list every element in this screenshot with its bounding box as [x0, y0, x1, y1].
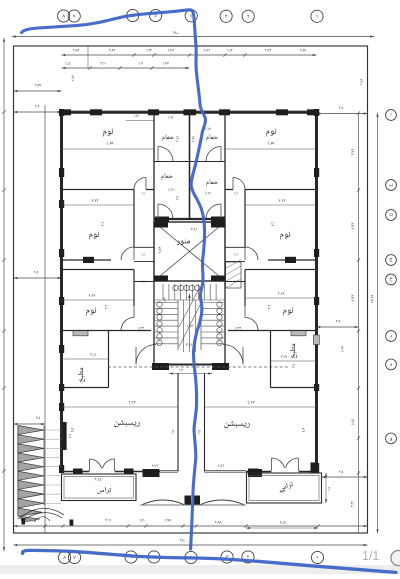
light well corner col 3 — [154, 276, 168, 282]
light well diagonals — [154, 222, 225, 281]
exterior top wall — [60, 111, 318, 114]
column left wall 5 — [59, 297, 64, 305]
porch dim 2.76 left — [160, 470, 178, 472]
kitchenR label — [290, 344, 297, 358]
bed3L dim 3.23 — [62, 299, 135, 301]
column left wall 6 — [59, 345, 64, 353]
window top wall 2 — [102, 110, 148, 112]
bath1L label — [162, 134, 174, 141]
top window dims — [134, 115, 139, 118]
grid bubble 3 top — [220, 10, 232, 22]
receptionL bottom wall — [62, 471, 90, 473]
window top wall 6 — [288, 110, 307, 112]
corridorR jamb walls — [225, 246, 245, 248]
grid bubble W right — [386, 433, 397, 444]
window ledge bed3R — [291, 331, 306, 336]
stair dim 1.63 — [187, 325, 193, 328]
grid bubble A right — [386, 110, 397, 121]
ramp wall stub — [63, 422, 67, 450]
bed1R label — [266, 129, 276, 137]
bath bottom wall — [154, 218, 225, 220]
door dims 1.33 — [138, 327, 144, 330]
receptionR dim 6.33 — [205, 406, 317, 408]
column right wall 4 — [314, 297, 319, 305]
ramp fence posts — [22, 518, 26, 525]
grid bubble 5 bottom — [148, 551, 160, 563]
column right wall 2 — [314, 168, 319, 177]
window top wall 3 — [159, 110, 183, 112]
column top wall 7 — [307, 109, 318, 115]
porch base line — [140, 504, 246, 506]
grid bubble J right — [386, 255, 397, 266]
left setback dim 2.5b — [14, 277, 62, 279]
pier center-left — [143, 469, 160, 477]
window right wall kitchen — [313, 335, 319, 345]
ramp dim 4.5 rotated — [68, 434, 71, 438]
right terrace setback dim — [322, 476, 368, 478]
light well dim 2.83 rotated — [158, 247, 161, 253]
party wall center — [189, 112, 191, 219]
left setback dim 2.5c — [14, 423, 46, 425]
corridorL end wall — [134, 281, 154, 283]
window top wall 4 — [196, 110, 219, 112]
column right wall 3 — [314, 249, 319, 257]
right dim labels — [351, 149, 354, 156]
column top wall 2 — [90, 109, 102, 115]
core right wall — [224, 112, 226, 222]
window top wall 1 — [71, 110, 90, 112]
porch center pier — [185, 496, 192, 505]
grid bubble 6 bottom — [125, 551, 137, 563]
exterior right wall — [315, 112, 318, 472]
viewer gray strip bottom — [0, 565, 400, 574]
core left wall — [153, 112, 155, 222]
terrace doorR arcs — [272, 458, 285, 468]
corridorL jamb walls — [134, 246, 154, 248]
bed3R top wall — [245, 269, 317, 271]
bath dims rotated — [176, 136, 179, 142]
site boundary — [14, 46, 368, 533]
kitchenR left wall — [270, 331, 272, 388]
grid bubble D right — [386, 331, 397, 342]
terraceR railing — [247, 473, 322, 503]
ramp fan steps — [18, 508, 64, 519]
terraceR dim line right — [325, 473, 327, 503]
grid bubble H right — [386, 274, 397, 285]
corridor door dims — [142, 192, 145, 195]
bath2R label — [206, 179, 218, 186]
left setback dim 2.5a — [14, 111, 62, 113]
grid bubble 8 bottom — [58, 551, 70, 563]
right overall dim 18.65 — [377, 113, 379, 533]
bath2L door arc — [158, 204, 173, 219]
column terraceL jamb1 — [73, 469, 83, 475]
grid bubble 6 top — [127, 9, 139, 21]
vestibule dim left rotated — [172, 430, 175, 434]
column left wall 9 — [59, 465, 64, 473]
grid bubble 1 top — [311, 10, 323, 22]
bath1R label — [206, 134, 218, 141]
entry door arc right apartment — [223, 345, 243, 365]
kitchenR dim rotated — [292, 364, 295, 368]
receptionR bottom wall — [246, 471, 271, 473]
bed1R dim line — [225, 148, 317, 150]
bed3L top wall — [62, 269, 135, 271]
column left wall 4 — [59, 249, 64, 257]
upper dim row 2 — [62, 67, 190, 69]
viewer circle button partial — [391, 550, 400, 565]
top overall dim line 18.0m — [12, 36, 374, 38]
light well walls — [154, 222, 225, 281]
porch arch right — [201, 500, 244, 505]
column top wall 3 — [148, 109, 159, 115]
bath2R door arc — [206, 204, 221, 219]
column terraceR jamb2 — [311, 463, 318, 474]
column bath bottom right — [211, 217, 225, 223]
window receptionL south — [160, 469, 178, 471]
column top wall 6 — [276, 109, 288, 115]
column core bottom left — [152, 363, 169, 370]
grid bubble 7 top — [68, 10, 80, 22]
window top wall 5 — [230, 110, 276, 112]
terraceL railing — [62, 474, 137, 501]
grid bubble 8 top — [58, 10, 70, 22]
core bottom wall — [154, 364, 225, 366]
bed3R bottom wall — [228, 330, 317, 332]
hall dashed line — [108, 366, 290, 368]
exterior left wall — [60, 112, 63, 472]
vestibule wall left — [177, 373, 179, 472]
light well label — [177, 239, 190, 245]
bed1L dim line — [62, 148, 155, 150]
bed3L right wall — [133, 270, 135, 307]
grid bubble 2 top — [242, 10, 254, 22]
right mid setback dim — [317, 326, 359, 328]
column left wall 2 — [59, 168, 64, 177]
left overall dim line — [3, 38, 5, 551]
receptionL dim 6.33 — [62, 406, 179, 408]
bottom overall dim 18.0 — [14, 544, 368, 546]
duct hatch right corridor — [226, 262, 242, 288]
hall dim 1.7 — [169, 373, 212, 375]
bath2L label — [161, 173, 173, 180]
bath divider wall — [154, 161, 225, 163]
light well dim 3.41 — [191, 228, 197, 231]
side setback line — [44, 105, 46, 533]
column top wall 4 — [184, 109, 197, 115]
column right wall 5 — [314, 384, 319, 391]
grid bubble E right — [386, 359, 397, 370]
porch dim 2.76 right — [205, 470, 247, 472]
column left wall 3 — [59, 200, 64, 208]
kitchenL right wall — [108, 331, 110, 388]
terrace dim 3.56 line — [246, 527, 318, 529]
grid bubble 4 bottom — [185, 551, 197, 563]
grid bubble T right — [386, 210, 397, 221]
window receptionR south — [205, 469, 247, 471]
receptionR dim 4.5 rotated — [302, 428, 305, 432]
column bath bottom left — [155, 217, 169, 223]
grid bubble 2 bottom — [242, 551, 254, 563]
column right wall 6 — [314, 463, 319, 473]
column terraceL jamb2 — [124, 469, 134, 475]
kitchenL label — [78, 368, 85, 382]
bed3R dim 3.23 — [245, 297, 317, 299]
bed2R bottom wall — [268, 259, 317, 261]
staircase treads — [153, 281, 155, 365]
bed2L dim 3.23 — [62, 204, 135, 206]
wall bed1R bottom — [245, 189, 317, 191]
stair dim 3.41 bottom — [186, 343, 192, 346]
bottom dim row rooms — [14, 525, 368, 527]
grid bubble 5 top — [150, 9, 162, 21]
blue annotation vertical stroke — [22, 10, 206, 549]
column top wall 1 — [60, 109, 71, 115]
stair riser number circles — [173, 285, 178, 290]
bed2R left wall — [244, 190, 246, 248]
grid bubble 1 bottom — [311, 551, 323, 563]
bed2R dim 3.6 rotated — [272, 222, 275, 226]
bed2L dim 3.6 rotated — [102, 222, 105, 226]
entry door arc left apartment — [136, 345, 156, 365]
kitchenL bottom wall — [62, 387, 109, 389]
column core bottom right — [212, 363, 229, 370]
blue annotation bottom stroke — [22, 550, 396, 572]
bed1R door arc — [233, 178, 245, 190]
bed3L bottom wall — [62, 330, 152, 332]
left setback dim 2.57 — [14, 90, 62, 92]
bed2L right wall — [133, 190, 135, 248]
bath1L door arc — [158, 147, 173, 162]
bath1R door arc — [206, 147, 221, 162]
vestibule wall right — [204, 373, 206, 472]
kitchenL dim 3.11 — [62, 358, 109, 360]
bed2R door arc — [245, 247, 258, 260]
bed3R left wall — [244, 270, 246, 307]
receptionL dim 4.5 rotated — [71, 428, 74, 432]
receptionR label — [224, 421, 249, 428]
light well corner col 4 — [211, 276, 225, 282]
column terraceR jamb1 — [248, 469, 259, 474]
grid bubble 3 bottom — [221, 551, 233, 563]
bed1L label — [103, 129, 113, 137]
right top setback dim — [317, 113, 368, 115]
corridorR end wall — [225, 281, 245, 283]
column top wall 5 — [219, 109, 230, 115]
stair dim 1.85 rotated — [163, 297, 166, 302]
kitchenR bottom wall — [271, 387, 317, 389]
bed2R dim 3.23 — [245, 204, 317, 206]
light well corner col 2 — [211, 222, 225, 228]
bed1L door arc — [134, 178, 146, 190]
wall bed1L bottom — [62, 189, 135, 191]
porch arch left — [143, 500, 185, 505]
vestibule dim right rotated — [198, 430, 201, 434]
terraceL label — [97, 487, 111, 494]
upper dim row 1 — [62, 54, 317, 56]
svg-text:1/1: 1/1 — [362, 549, 379, 563]
light well corner col 1 — [154, 222, 168, 228]
grid bubble 7 bottom — [68, 551, 80, 563]
grid bubble 4 top — [185, 10, 197, 22]
kitchenR dim 3.17 — [271, 360, 317, 362]
column left wall 8 — [59, 403, 64, 411]
grid bubble B right — [386, 180, 397, 191]
pier center-right — [248, 469, 262, 477]
bed3R door arc — [245, 318, 258, 331]
terraceR label — [279, 481, 294, 492]
terrace doorL arcs — [90, 459, 102, 468]
bed3R label — [283, 308, 293, 316]
bed2R label — [280, 232, 290, 240]
receptionL label — [114, 420, 139, 427]
bed2L door arc — [121, 247, 134, 260]
bed3R dim 3.6 rotated — [268, 305, 271, 309]
column left wall 7 — [59, 384, 64, 391]
bed2L label — [89, 232, 99, 240]
bed3L label — [86, 308, 96, 316]
column left wall 1 — [59, 109, 64, 116]
bed2L bottom wall — [62, 259, 112, 261]
bed3L door arc — [121, 318, 134, 331]
right setback rotated — [360, 79, 363, 85]
entrance ramp hatch — [17, 426, 19, 517]
right dim line inner — [358, 113, 360, 533]
column right wall 1 — [314, 109, 319, 116]
window ledge bed3L — [73, 331, 88, 336]
bed3L dim 3.6 rotated — [105, 305, 108, 309]
